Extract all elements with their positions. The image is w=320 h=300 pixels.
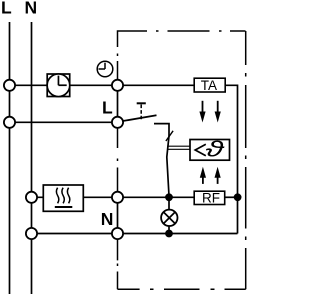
switch manual actuator T with dashed link (137, 103, 146, 119)
arrow up 1 (RF to thermostat) (200, 167, 206, 184)
terminal node device L switch (112, 117, 123, 128)
junction dot (switch output / lamp / RF) (165, 193, 173, 201)
RF box (internal room sensor) (194, 190, 225, 205)
wire: lamp branch vertical (168, 197, 170, 233)
wire: RF box right to vertical riser (225, 196, 238, 198)
terminal node on N at heater line (26, 192, 37, 203)
terminal node on L at switch line (4, 117, 15, 128)
wire: N return line y=233.5 (32, 233, 238, 235)
arrow down 1 (TA to thermostat) (199, 101, 205, 123)
device border dash-dot: left edge lower segment (117, 239, 119, 289)
wire: terminal bridge L (85 to 122) (117, 85, 119, 122)
switch blade (123, 115, 157, 121)
TA box (remote sensor terminal) (194, 78, 225, 93)
device border dash-dot: top edge (118, 31, 246, 47)
svg-text:N: N (101, 209, 114, 229)
svg-text:RF: RF (202, 190, 220, 205)
wire: timer line y=85.3 from L to TA box (10, 84, 195, 86)
svg-text:TA: TA (201, 78, 217, 93)
wire: supply line N vertical (31, 22, 33, 294)
wire: contact down to lamp junction (slight kink) (167, 136, 169, 194)
lamp (indicator) (161, 210, 177, 226)
clock symbol (small, above timer line) (97, 61, 113, 77)
wire: switch feed line y=122.3 (10, 121, 118, 123)
wire: TA box right to corner (225, 85, 237, 233)
svg-text:N: N (25, 0, 38, 18)
device border dash-dot: right edge (245, 31, 247, 289)
device border dash-dot: bottom edge (118, 288, 246, 290)
terminal node device L timer (112, 80, 123, 91)
svg-text:ϑ: ϑ (206, 137, 226, 161)
mechanical link double line to thermostat (167, 146, 190, 149)
terminal node on N at return line (26, 228, 37, 239)
wire: supply line L vertical (9, 22, 11, 294)
arrow up 2 (RF to thermostat) (215, 167, 221, 184)
wire: terminal bridge N (197 to 233) (117, 197, 119, 233)
svg-text:L: L (1, 0, 12, 18)
thermostat box U1 (<ϑ) (190, 137, 230, 161)
switch fixed contact (154, 124, 169, 136)
arrow down 2 (TA to thermostat) (215, 101, 221, 123)
terminal node on L at timer line (4, 80, 15, 91)
wire: heater line y=197.3 (32, 196, 195, 198)
device border dash-dot: left edge upper segment (117, 54, 119, 80)
time switch box (square with clock) (47, 74, 70, 97)
terminal node device N (112, 228, 123, 239)
svg-text:L: L (102, 98, 113, 118)
slash mark across contact wire (166, 131, 173, 141)
device border dash-dot: left edge middle segment (117, 128, 119, 192)
junction dot (lamp to N line) (165, 230, 173, 238)
heating element (floor heating symbol) (43, 185, 83, 211)
junction dot (TA riser / RF right) (234, 193, 242, 201)
terminal node device heater (112, 192, 123, 203)
